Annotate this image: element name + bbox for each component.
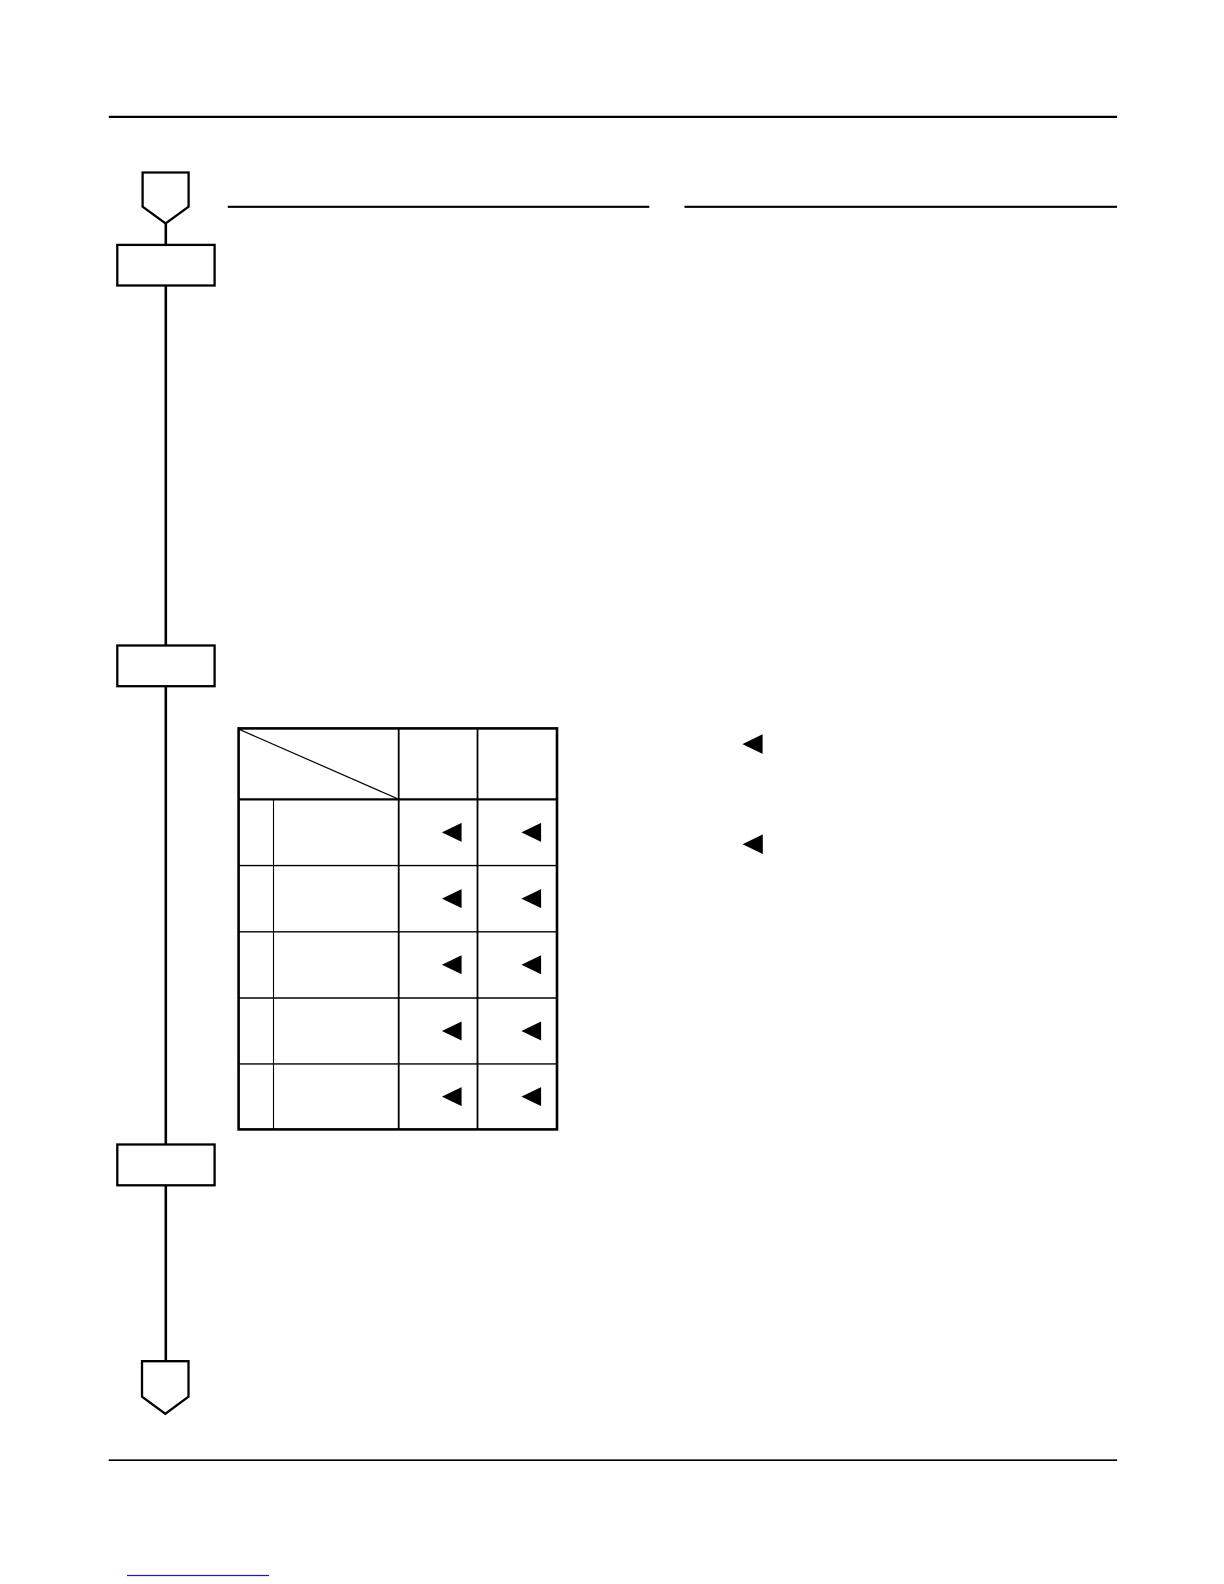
table sub-column divider bbox=[273, 799, 275, 1129]
revision marker row 4 col 3 bbox=[521, 1022, 541, 1041]
bottom rule bbox=[109, 1459, 1117, 1461]
revision marker row 3 col 2 bbox=[442, 955, 462, 974]
left column heading underline bbox=[228, 206, 650, 208]
revision marker row 4 col 2 bbox=[442, 1022, 462, 1041]
revision marker row 2 col 2 bbox=[442, 889, 462, 908]
table row divider 3 bbox=[239, 997, 557, 999]
revision marker row 1 col 3 bbox=[521, 823, 541, 842]
table column divider 1 bbox=[398, 728, 400, 1129]
footnote separator (blue) bbox=[127, 1575, 269, 1577]
table header separator bbox=[239, 798, 557, 800]
wire box 3 to end connector bbox=[165, 1185, 168, 1361]
process box 3 bbox=[117, 1145, 214, 1186]
wire box 2 to box 3 bbox=[165, 686, 168, 1144]
flowchart off-page connector (end) bbox=[142, 1361, 189, 1414]
revision marker note 1 bbox=[742, 734, 762, 754]
process box 1 bbox=[117, 245, 214, 286]
revision marker row 2 col 3 bbox=[521, 889, 541, 908]
table outer border bbox=[239, 728, 557, 1129]
revision marker row 5 col 3 bbox=[521, 1087, 541, 1106]
revision marker row 1 col 2 bbox=[442, 823, 462, 842]
table column divider 2 bbox=[477, 728, 479, 1129]
revision marker note 2 bbox=[743, 834, 763, 854]
right column heading underline bbox=[685, 206, 1118, 208]
flowchart off-page connector (start) bbox=[143, 173, 189, 224]
table header diagonal bbox=[240, 730, 399, 800]
revision marker row 5 col 2 bbox=[442, 1087, 462, 1106]
process box 2 bbox=[117, 646, 214, 687]
table row divider 4 bbox=[239, 1063, 557, 1065]
table row divider 2 bbox=[239, 931, 557, 933]
top rule bbox=[109, 116, 1117, 118]
revision marker row 3 col 3 bbox=[521, 955, 541, 974]
wire connector to box 1 bbox=[165, 223, 168, 245]
wire box 1 to box 2 bbox=[165, 286, 168, 646]
table row divider 1 bbox=[239, 865, 557, 867]
